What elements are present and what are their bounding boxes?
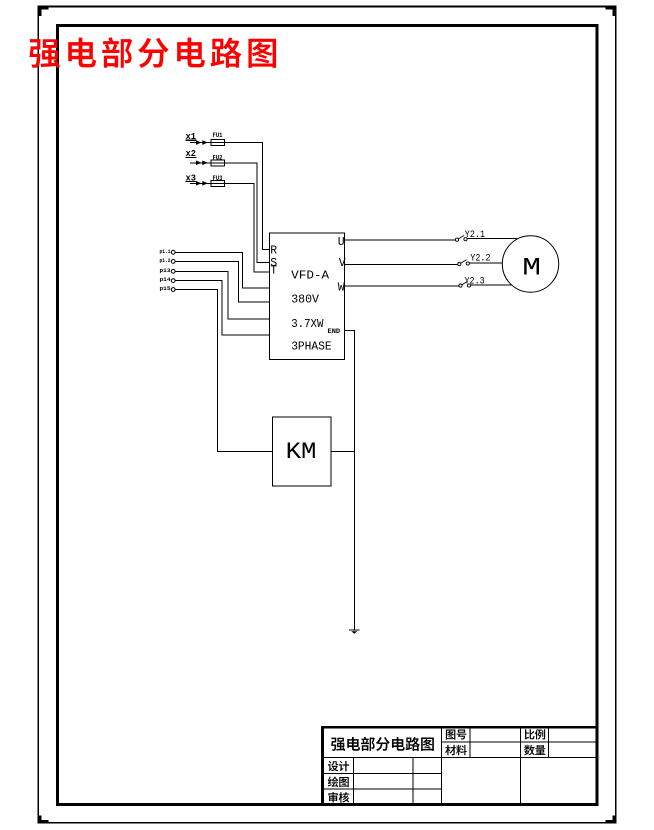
label 数量	[524, 745, 545, 756]
terminal circle p1.2	[171, 260, 175, 264]
svg-text:R: R	[270, 244, 277, 257]
wire KM to ground line	[331, 451, 354, 453]
label 审核	[328, 792, 349, 803]
wire switch Y2.3 to motor	[471, 284, 512, 286]
svg-text:Y2.1: Y2.1	[465, 230, 485, 241]
label 比例	[525, 729, 546, 739]
svg-text:VFD-A: VFD-A	[291, 269, 330, 283]
label FU2	[213, 154, 223, 161]
svg-text:END: END	[328, 328, 341, 335]
svg-text:3PHASE: 3PHASE	[291, 339, 332, 353]
wire p1.1	[175, 252, 270, 288]
value 3PHASE	[291, 339, 332, 353]
terminal label p14	[160, 276, 172, 283]
wire switch Y2.1 to motor	[467, 238, 517, 240]
terminal label x1	[186, 131, 197, 142]
value 380V	[291, 293, 319, 307]
terminal label p1.1	[160, 248, 171, 255]
svg-text:p14: p14	[160, 276, 172, 283]
svg-text:M: M	[522, 254, 541, 282]
label Y2.3	[465, 276, 485, 287]
svg-text:3.7XW: 3.7XW	[291, 317, 324, 331]
pin END	[328, 328, 341, 335]
corner mark bottom-left	[40, 816, 49, 822]
contactor KM	[272, 417, 331, 486]
switch Y2.3	[459, 281, 471, 287]
corner mark top-left	[40, 8, 49, 16]
terminal label p1.2	[160, 257, 171, 264]
fuse FU1	[211, 140, 225, 146]
wire FU2 to VFD pin S	[225, 163, 270, 263]
title block grid	[323, 727, 598, 804]
wire p1.2	[175, 261, 270, 302]
svg-text:V: V	[339, 257, 346, 270]
label Y2.1	[465, 230, 485, 241]
wire x3 to FU3	[190, 182, 211, 184]
svg-text:p1.1: p1.1	[160, 248, 171, 255]
title block outer (thick)	[321, 726, 597, 805]
label FU3	[213, 175, 223, 182]
terminal circle p1.1	[171, 250, 175, 254]
label Y2.2	[470, 254, 490, 265]
arrow marks on x3 wire	[197, 182, 207, 185]
pin S	[270, 257, 277, 270]
title block name 强电部分电路图	[331, 737, 434, 751]
ground	[349, 629, 360, 631]
switch Y2.1	[455, 235, 467, 241]
value 3.7XW	[291, 317, 324, 331]
corner mark bottom-right	[606, 816, 615, 822]
label 材料	[445, 745, 467, 755]
switch Y2.2	[458, 260, 470, 266]
inverter VFD-A block U1	[270, 233, 345, 360]
label 绘图	[328, 777, 349, 788]
motor M	[502, 236, 558, 292]
pin T	[270, 265, 277, 278]
inner thick border frame	[58, 25, 598, 804]
svg-text:FU2: FU2	[213, 154, 223, 161]
terminal label x3	[186, 172, 197, 183]
pin W	[338, 281, 345, 294]
wire VFD to switch Y2.2	[345, 263, 458, 265]
pin V	[339, 257, 346, 270]
wire FU1 to VFD pin R	[225, 143, 270, 250]
corner mark top-right	[606, 8, 615, 16]
arrow marks on x2 wire	[197, 161, 207, 164]
pin R	[270, 244, 277, 257]
wire END to ground	[345, 330, 355, 629]
fuse FU3	[211, 180, 225, 186]
svg-text:p1.2: p1.2	[160, 257, 171, 264]
svg-text:FU1: FU1	[213, 132, 223, 139]
svg-text:KM: KM	[286, 440, 317, 465]
label 设计	[328, 761, 349, 771]
pin U	[338, 236, 345, 249]
svg-text:380V: 380V	[291, 293, 319, 307]
terminal circle p15	[171, 288, 175, 292]
svg-text:U: U	[338, 236, 345, 249]
arrow marks on x1 wire	[197, 141, 207, 144]
label FU1	[213, 132, 223, 139]
svg-text:p15: p15	[160, 285, 172, 292]
svg-text:W: W	[338, 281, 345, 294]
wire FU3 to VFD pin T	[225, 183, 270, 272]
svg-text:Y2.3: Y2.3	[465, 276, 485, 287]
wire x1 to FU1	[190, 142, 211, 144]
svg-text:T: T	[270, 265, 277, 278]
drawing title (red) 强电部分电路图	[29, 37, 276, 68]
wire switch Y2.2 to motor	[470, 262, 503, 264]
wire VFD to switch Y2.1	[345, 239, 456, 241]
label 图号	[446, 730, 467, 740]
wire p13	[175, 271, 270, 319]
wire p15	[175, 290, 272, 452]
terminal circle p14	[171, 279, 175, 283]
wire VFD to switch Y2.3	[345, 285, 459, 287]
value VFD-A	[291, 269, 330, 283]
terminal circle p13	[171, 269, 175, 273]
wire p14	[175, 281, 270, 335]
fuse FU2	[211, 160, 225, 166]
terminal label p15	[160, 285, 172, 292]
wire x2 to FU2	[190, 162, 211, 164]
terminal label p13	[160, 267, 172, 274]
terminal label x2	[186, 148, 197, 159]
svg-text:FU3: FU3	[213, 175, 223, 182]
svg-text:p13: p13	[160, 267, 172, 274]
